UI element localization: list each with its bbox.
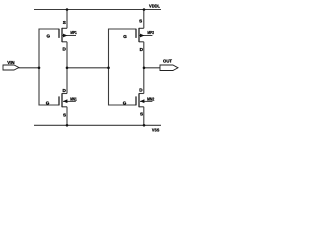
wire stage1 out to stage2 gate [67,67,109,69]
port flag OUT [160,65,178,71]
svg-text:VIN: VIN [7,60,15,66]
svg-text:S: S [139,19,142,24]
wire stage2 drain column [143,42,145,94]
svg-text:G: G [123,101,127,106]
wire OUT [144,67,160,69]
svg-text:G: G [123,34,127,39]
VDD rail [34,9,161,11]
junction stage2 gate tee [107,67,110,70]
svg-text:OUT: OUT [163,59,172,65]
junction VIN tee [38,67,41,70]
wire MN2 drain jog [139,93,144,95]
transistor MP1 [59,28,76,42]
svg-text:MP1: MP1 [70,30,76,36]
transistor MP2 [136,28,152,42]
wire MN1 drain jog [62,93,67,95]
svg-text:S: S [140,112,143,117]
junction stage1 drain node [66,67,69,70]
wire MP1 source to VDD [62,10,67,29]
svg-text:VSS: VSS [152,128,160,134]
svg-text:G: G [47,34,51,39]
svg-text:MP2: MP2 [147,30,154,36]
svg-text:S: S [63,112,66,117]
junction MP2 source / VDD [143,8,146,11]
junction MN1 source / VSS [66,124,69,127]
wire MN2 source to VSS [139,107,144,126]
svg-text:S: S [63,20,66,25]
wire stage1 gate tee [39,29,59,105]
wire stage1 drain column [66,42,68,94]
junction MP1 source / VDD [66,8,69,11]
port flag VIN [3,65,19,70]
wire MN1 source to VSS [62,107,67,126]
wire MP2 drain jog [139,41,144,43]
wire stage2 gate tee [109,29,137,105]
svg-text:MN2: MN2 [147,97,154,103]
transistor MN1 [59,93,76,107]
svg-text:VDDL: VDDL [149,4,160,10]
wire MP1 drain jog [62,41,67,43]
transistor MN2 [136,93,152,107]
wire VIN to input tee [19,67,40,69]
VSS rail [34,124,161,126]
junction stage2 drain node [143,67,146,70]
svg-text:G: G [46,101,50,106]
wire MP2 source to VDD [139,10,144,29]
junction MN2 source / VSS [143,124,146,127]
svg-text:MN1: MN1 [70,97,77,103]
